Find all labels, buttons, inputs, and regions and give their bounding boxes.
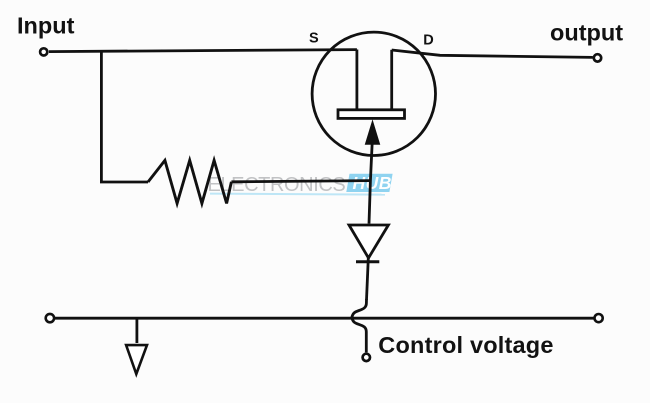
ground stub wire [135,319,138,343]
transistor drain lead vertical [390,50,393,109]
transistor Q1 body circle [312,32,435,155]
bus terminal left [46,314,54,322]
resistor R [148,160,231,203]
wire drain rail to output [392,50,593,57]
bus wire bottom [55,317,595,320]
wire diode to hop [367,258,369,300]
svg-text:Control voltage: Control voltage [378,332,553,358]
control terminal [363,354,370,361]
svg-text:S: S [309,30,319,46]
bus terminal right [595,314,603,322]
input terminal [40,48,47,55]
wire gate down to diode [369,143,372,224]
wire input rail [49,50,357,52]
wire hop brace over bus [352,299,367,352]
svg-text:output: output [550,19,623,45]
wire input branch vertical [101,51,148,182]
transistor gate arrow [365,121,379,144]
output terminal [594,54,601,61]
svg-text:Input: Input [17,12,75,38]
ground arrow [126,345,147,374]
wire resistor to gate [231,181,370,182]
transistor channel plate [338,110,405,119]
watermark ElectronicsHub [208,173,393,196]
diode cathode bar [356,260,379,263]
transistor source lead vertical [355,50,358,109]
svg-text:D: D [423,32,433,48]
svg-text:HUB: HUB [353,173,392,193]
diode D1 [349,225,388,258]
